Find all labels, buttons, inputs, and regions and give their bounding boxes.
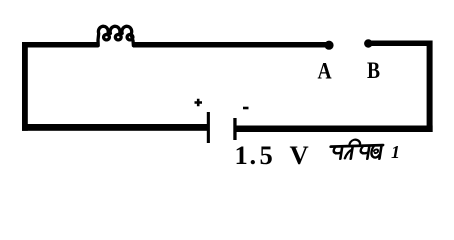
svg-text:5: 5 [260,140,273,170]
svg-text:A: A [317,58,332,84]
svg-text:1: 1 [235,140,248,170]
svg-text:.: . [250,140,257,170]
svg-text:B: B [367,58,380,84]
svg-text:1: 1 [391,142,400,162]
svg-text:V: V [290,140,309,170]
